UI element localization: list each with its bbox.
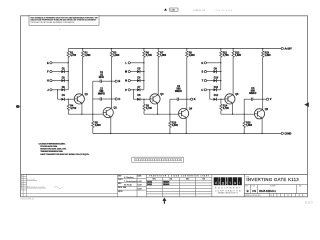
svg-text:+10V: +10V bbox=[286, 49, 292, 51]
svg-text:1,800: 1,800 bbox=[85, 54, 92, 57]
svg-text:U: U bbox=[201, 88, 203, 92]
svg-text:S: S bbox=[201, 70, 203, 74]
svg-text:CS: CS bbox=[252, 189, 256, 193]
wire diode D1 to bus bbox=[64, 71, 68, 73]
junction rail tap R8 bbox=[186, 48, 187, 49]
junction C2 bus junction bbox=[111, 98, 112, 99]
junction C3 bus junction bbox=[186, 99, 187, 100]
terminal N bbox=[128, 80, 130, 82]
junction Q5 emitter junction bbox=[232, 114, 233, 115]
wire R4 bottom lead bbox=[67, 111, 69, 115]
svg-text:F: F bbox=[21, 185, 22, 187]
wire series diode to base bbox=[64, 98, 74, 100]
conversion chart column headers bbox=[153, 178, 206, 181]
svg-text:23S-B-K113: 23S-B-K113 bbox=[216, 10, 233, 12]
wire output stub V bbox=[263, 98, 267, 100]
wire diode D11 to bus bbox=[216, 89, 220, 91]
terminal D bbox=[115, 98, 117, 100]
junction R5 tap bbox=[92, 114, 93, 115]
capacitor C4 bbox=[252, 98, 253, 101]
junction base node bbox=[220, 99, 221, 100]
junction C1 bus junction bbox=[111, 81, 112, 82]
wire series diode to base bbox=[140, 98, 150, 100]
junction bus row1 bbox=[68, 62, 69, 63]
wire input F lead bbox=[52, 71, 61, 73]
wire cap branch vertical bbox=[92, 81, 94, 114]
DEC logo block boundary bbox=[243, 174, 245, 196]
capacitor C3 bbox=[177, 98, 178, 101]
svg-text:1,800: 1,800 bbox=[160, 54, 167, 57]
svg-text:TRANSISTORS ARE DEC 3639: TRANSISTORS ARE DEC 3639 bbox=[40, 150, 63, 153]
wire diode D9 to bus bbox=[216, 71, 220, 73]
wire R14 top lead bbox=[220, 99, 222, 104]
terminal H bbox=[50, 80, 52, 82]
wire C4 left wire bbox=[244, 98, 251, 100]
title box size/code/number headers bbox=[245, 185, 303, 187]
module connector outline bbox=[132, 157, 184, 162]
wire input R to bus bbox=[207, 62, 221, 64]
junction Q6 emitter junction bbox=[261, 133, 262, 134]
diode D8 bbox=[137, 98, 140, 101]
svg-text:H: H bbox=[21, 187, 22, 189]
svg-text:1,800: 1,800 bbox=[189, 54, 196, 57]
junction Q4 emitter junction bbox=[186, 133, 187, 134]
transistor Q2 bbox=[103, 108, 113, 118]
svg-text:MODULE K113: MODULE K113 bbox=[27, 187, 44, 189]
svg-text:4-13-67: 4-13-67 bbox=[27, 179, 35, 181]
junction rail tap R2 bbox=[82, 48, 83, 49]
junction bus row2 bbox=[220, 71, 221, 72]
junction rail tap R11 bbox=[220, 48, 221, 49]
svg-text:P: P bbox=[125, 88, 127, 92]
svg-text:RESISTORS ARE 1/4W; 10%: RESISTORS ARE 1/4W; 10% bbox=[40, 148, 66, 151]
junction base node bbox=[143, 99, 144, 100]
wire input M lead bbox=[130, 71, 137, 73]
junction bus row1 bbox=[143, 62, 144, 63]
terminal C bbox=[281, 132, 283, 134]
signature block frame bbox=[118, 174, 147, 196]
svg-text:GATE TRANSISTORS ARE DEC 6534B: GATE TRANSISTORS ARE DEC 6534B, 10% OR E… bbox=[40, 153, 89, 156]
svg-text:MMFD: MMFD bbox=[175, 90, 182, 93]
diode D6 bbox=[137, 79, 140, 82]
wire drop to series diode bbox=[210, 90, 214, 99]
wire R5 bottom lead bbox=[92, 128, 94, 134]
capacitor C1 bbox=[100, 80, 101, 83]
wire R15 bottom lead bbox=[243, 128, 245, 134]
svg-text:CODE: CODE bbox=[251, 185, 255, 187]
faint pencil mark in empty strip area bbox=[54, 187, 62, 189]
wire series diode to base bbox=[216, 98, 225, 100]
wire R10 bottom lead bbox=[169, 128, 171, 134]
svg-text:MMFD: MMFD bbox=[249, 92, 256, 95]
svg-text:IN3609: IN3609 bbox=[163, 184, 169, 186]
wire C4 right wire bbox=[253, 98, 263, 100]
wire diode D2 to bus bbox=[64, 80, 68, 82]
wire diode D5 to bus bbox=[140, 71, 144, 73]
svg-text:INVERTING GATE K113: INVERTING GATE K113 bbox=[246, 177, 299, 182]
resistor R7 bbox=[157, 51, 159, 57]
terminal K bbox=[191, 98, 193, 100]
resistor R1 bbox=[67, 51, 69, 57]
wire Q1 emitter down bbox=[81, 103, 83, 114]
terminal P bbox=[128, 89, 130, 91]
svg-text:4,700: 4,700 bbox=[146, 54, 153, 57]
svg-text:DIODES ARE D664: DIODES ARE D664 bbox=[40, 145, 58, 148]
junction bus row2 bbox=[68, 71, 69, 72]
svg-text:9-6-67: 9-6-67 bbox=[138, 189, 143, 191]
wire C2 left wire bbox=[93, 98, 100, 100]
svg-text:B: B bbox=[247, 189, 249, 193]
junction bus row3 bbox=[143, 80, 144, 81]
svg-text:C O R P O R A T I O N: C O R P O R A T I O N bbox=[215, 189, 241, 192]
resistor R3 bbox=[110, 51, 112, 57]
svg-text:1,800: 1,800 bbox=[246, 124, 253, 127]
diode D1 bbox=[61, 70, 64, 73]
wire drop to series diode bbox=[58, 90, 62, 99]
wire ground rail bbox=[93, 132, 281, 134]
wire Q4 emitter down bbox=[185, 118, 187, 133]
diode D9 bbox=[214, 70, 217, 73]
junction bus row3 bbox=[220, 80, 221, 81]
svg-text:1,800: 1,800 bbox=[235, 54, 242, 57]
terminal E bbox=[50, 62, 52, 64]
title strip top rule bbox=[21, 173, 308, 175]
DEC logo letters bbox=[215, 181, 241, 185]
svg-text:N: N bbox=[125, 79, 127, 83]
wire Q5 collector up bbox=[232, 57, 234, 94]
diode D5 bbox=[137, 70, 140, 73]
wire diode D7 to bus bbox=[140, 89, 144, 91]
terminal R bbox=[204, 62, 206, 64]
eco history boxes bbox=[270, 193, 303, 196]
capacitor C4 value label bbox=[249, 89, 256, 95]
wire output bus bbox=[186, 57, 188, 109]
wire R10 top lead bbox=[169, 114, 171, 121]
svg-text:E Q U I P M E N T: E Q U I P M E N T bbox=[215, 188, 241, 190]
junction rail tap R3 bbox=[111, 48, 112, 49]
svg-text:B: B bbox=[118, 79, 120, 83]
wire Q2 emitter down bbox=[110, 117, 112, 133]
wire input L to bus bbox=[130, 62, 144, 64]
resistor R12 bbox=[232, 51, 234, 57]
svg-text:D10: D10 bbox=[214, 77, 219, 80]
wire output stub K bbox=[187, 98, 191, 100]
transistor Q5 bbox=[225, 94, 235, 104]
svg-text:E: E bbox=[21, 183, 22, 185]
wire C2 right wire bbox=[101, 98, 111, 100]
wire R13 top lead bbox=[262, 49, 264, 51]
terminal V bbox=[266, 98, 268, 100]
diode D10 bbox=[214, 79, 217, 82]
copyright notice box bbox=[29, 15, 99, 25]
wire R6 top lead bbox=[143, 49, 145, 51]
sheet border frame bbox=[21, 16, 308, 197]
svg-text:4,700: 4,700 bbox=[70, 107, 77, 110]
wire diode D3 to bus bbox=[64, 89, 68, 91]
junction Q1 emitter junction bbox=[81, 114, 82, 115]
svg-text:d: d bbox=[215, 181, 217, 185]
wire C1 left wire bbox=[93, 80, 100, 82]
svg-text:UNLESS OTHERWISE INDICATED:: UNLESS OTHERWISE INDICATED: bbox=[39, 142, 66, 145]
capacitor C2 bbox=[100, 97, 101, 100]
right margin arrow mark bbox=[304, 102, 309, 107]
wire R11 top lead bbox=[220, 49, 222, 51]
title box rule above print row bbox=[244, 192, 307, 194]
wire input U lead bbox=[207, 89, 214, 91]
wire input J lead bbox=[52, 89, 61, 91]
diode D4 bbox=[61, 98, 64, 101]
capacitor C3 value label bbox=[175, 87, 182, 93]
wire R14 bottom lead bbox=[220, 111, 222, 115]
resistor R9 bbox=[143, 104, 145, 110]
title box size/code/number verticals bbox=[251, 185, 297, 194]
title box rule under title bbox=[244, 184, 307, 186]
transistor Q3 bbox=[150, 94, 160, 104]
resistor R2 bbox=[81, 51, 83, 57]
junction gnd tap g3 pulldown bbox=[244, 133, 245, 134]
svg-text:TRANSISTOR & DIODE CONVERSION: TRANSISTOR & DIODE CONVERSION CHART bbox=[149, 175, 210, 178]
wire diode D6 to bus bbox=[140, 80, 144, 82]
resistor R11 bbox=[220, 51, 222, 57]
svg-text:1 DB: 1 DB bbox=[170, 10, 175, 12]
terminal F bbox=[50, 71, 52, 73]
wire Q6 emitter down bbox=[261, 118, 263, 133]
svg-text:IN3606: IN3606 bbox=[163, 181, 169, 183]
wire Q1 collector up bbox=[82, 57, 84, 94]
resistor R5 bbox=[92, 121, 94, 127]
bottom margin up-arrow mark bbox=[163, 199, 166, 204]
wire input P lead bbox=[130, 89, 137, 91]
svg-text:9-1-67: 9-1-67 bbox=[138, 181, 143, 183]
wire R7 top lead bbox=[157, 49, 159, 51]
DEC logo digital blocks bbox=[214, 177, 242, 185]
wire +10V top rail bbox=[68, 48, 281, 50]
svg-text:PRINTED CIRCUIT REV.: PRINTED CIRCUIT REV. bbox=[245, 195, 261, 197]
left index table row rules bbox=[21, 177, 118, 194]
wire C3 left wire bbox=[170, 98, 177, 100]
wire Q3 collector up bbox=[157, 57, 159, 94]
wire cap branch vertical bbox=[169, 99, 171, 114]
junction C4 bus junction bbox=[262, 99, 263, 100]
svg-text:D12: D12 bbox=[214, 94, 219, 97]
resistor R15 bbox=[243, 121, 245, 127]
wire input H lead bbox=[52, 80, 61, 82]
terminal M bbox=[128, 71, 130, 73]
diode D2 bbox=[61, 79, 64, 82]
wire R2 top lead bbox=[82, 49, 84, 51]
wire input S lead bbox=[207, 71, 214, 73]
wire R5 top lead bbox=[92, 114, 94, 121]
junction Q2 emitter junction bbox=[110, 133, 111, 134]
module connector pins bbox=[134, 159, 182, 161]
wire R8 top lead bbox=[186, 49, 188, 51]
wire interstage base wire bbox=[144, 113, 179, 115]
wire output stub D bbox=[111, 98, 115, 100]
transistor Q4 bbox=[179, 108, 189, 118]
top margin revision box bbox=[170, 8, 178, 11]
terminal J bbox=[50, 89, 52, 91]
wire drop to series diode bbox=[133, 90, 137, 99]
wire C1 right wire bbox=[101, 80, 111, 82]
wire input T lead bbox=[207, 80, 214, 82]
resistor R6 bbox=[143, 51, 145, 57]
svg-text:W. Hindle: W. Hindle bbox=[124, 185, 132, 187]
terminal T bbox=[204, 80, 206, 82]
junction base node bbox=[68, 99, 69, 100]
junction drop tap bbox=[209, 89, 210, 90]
svg-text:PROJ. ENG: PROJ. ENG bbox=[118, 187, 127, 189]
svg-text:MFD: MFD bbox=[99, 76, 104, 79]
wire output bus bbox=[110, 57, 112, 108]
terminal B bbox=[115, 80, 117, 82]
svg-text:1,800: 1,800 bbox=[172, 124, 179, 127]
terminal A bbox=[281, 48, 283, 50]
svg-text:H: H bbox=[47, 79, 49, 83]
resistor R13 bbox=[262, 51, 264, 57]
left index table verticals bbox=[23, 174, 27, 196]
conversion chart entries bbox=[147, 180, 169, 186]
signature block headers and entries bbox=[118, 174, 142, 193]
svg-text:T. Stockebrand: T. Stockebrand bbox=[124, 180, 137, 183]
svg-text:D11: D11 bbox=[214, 86, 219, 89]
resistor R10 bbox=[169, 121, 171, 127]
svg-text:1,800: 1,800 bbox=[95, 124, 102, 127]
svg-text:SIZE: SIZE bbox=[245, 185, 248, 187]
resistor R14 bbox=[220, 104, 222, 110]
svg-text:1,800: 1,800 bbox=[265, 54, 272, 57]
diode D12 bbox=[214, 98, 217, 101]
wire interstage base wire bbox=[68, 113, 103, 115]
junction bus row3 bbox=[68, 80, 69, 81]
wire interstage base wire bbox=[221, 113, 255, 115]
junction drop tap bbox=[57, 89, 58, 90]
svg-text:DRN: DRN bbox=[118, 175, 121, 177]
svg-text:t: t bbox=[230, 181, 231, 185]
svg-text:4,700: 4,700 bbox=[223, 107, 230, 110]
svg-text:V: V bbox=[270, 97, 272, 101]
capacitor C2 value label bbox=[98, 90, 105, 96]
wire C3 right wire bbox=[179, 98, 187, 100]
transistor Q1 bbox=[74, 94, 84, 104]
wire R12 top lead bbox=[232, 49, 234, 51]
wire R4 top lead bbox=[67, 99, 69, 104]
svg-text:4,700: 4,700 bbox=[70, 54, 77, 57]
terminal S bbox=[204, 71, 206, 73]
wire R3 top lead bbox=[110, 49, 112, 51]
junction drop tap bbox=[133, 89, 134, 90]
resistor R8 bbox=[186, 51, 188, 57]
junction rail tap R13 bbox=[262, 48, 263, 49]
wire R9 top lead bbox=[143, 99, 145, 104]
transistor Q6 bbox=[254, 109, 264, 119]
svg-text:NUMBER: NUMBER bbox=[270, 185, 276, 187]
junction rail tap R6 bbox=[143, 48, 144, 49]
junction Q3 emitter junction bbox=[157, 114, 158, 115]
svg-text:9-5-67: 9-5-67 bbox=[138, 185, 143, 187]
diode D11 bbox=[214, 88, 217, 91]
junction bus row2 bbox=[143, 71, 144, 72]
svg-text:g: g bbox=[222, 181, 224, 185]
terminal U bbox=[204, 89, 206, 91]
junction gnd tap g2 pulldown bbox=[169, 133, 170, 134]
capacitor C1 value label bbox=[99, 74, 104, 80]
junction bus row1 bbox=[220, 62, 221, 63]
wire R15 top lead bbox=[243, 114, 245, 121]
svg-text:K: K bbox=[194, 97, 196, 101]
junction rail tap R12 bbox=[232, 48, 233, 49]
svg-text:R: R bbox=[201, 61, 203, 65]
wire output bus bbox=[262, 57, 264, 109]
wire R1 top lead bbox=[67, 49, 69, 51]
wire cap branch vertical bbox=[243, 99, 245, 114]
wire diode bus bbox=[220, 57, 222, 90]
junction R10 tap bbox=[169, 114, 170, 115]
svg-text:B: B bbox=[21, 177, 22, 179]
svg-text:K113: K113 bbox=[305, 200, 313, 205]
wire diode D10 to bus bbox=[216, 80, 220, 82]
svg-text:1,800: 1,800 bbox=[113, 54, 120, 57]
wire Q5 emitter down bbox=[232, 103, 234, 114]
left index table tiny entries bbox=[21, 174, 44, 190]
svg-text:4,700: 4,700 bbox=[223, 54, 230, 57]
diode D7 bbox=[137, 88, 140, 91]
conversion chart frame bbox=[146, 174, 212, 196]
svg-text:DRB 110B DRB 102: DRB 110B DRB 102 bbox=[21, 199, 35, 201]
wire Q3 emitter down bbox=[157, 103, 159, 114]
svg-text:R. Mayhew: R. Mayhew bbox=[124, 177, 134, 179]
wire output stub B bbox=[111, 80, 115, 82]
resistor R4 bbox=[67, 104, 69, 110]
terminal L bbox=[128, 62, 130, 64]
left margin zone blob bbox=[16, 105, 20, 108]
svg-text:RS-B-K113-0-1: RS-B-K113-0-1 bbox=[259, 190, 276, 193]
svg-text:D: D bbox=[118, 97, 120, 101]
junction R15 tap bbox=[244, 114, 245, 115]
wire input N lead bbox=[130, 80, 137, 82]
top margin revision triangle mark bbox=[164, 8, 167, 10]
diode D3 bbox=[61, 88, 64, 91]
wire diode bus bbox=[143, 57, 145, 90]
wire diode bus bbox=[67, 57, 69, 90]
svg-text:4,700: 4,700 bbox=[146, 107, 153, 110]
svg-text:GND: GND bbox=[286, 133, 291, 135]
svg-text:MMFD: MMFD bbox=[98, 93, 105, 96]
svg-text:D662: D662 bbox=[147, 184, 152, 186]
junction rail tap R7 bbox=[158, 48, 159, 49]
svg-text:M: M bbox=[125, 70, 127, 74]
wire input E to bus bbox=[52, 62, 68, 64]
wire R9 bottom lead bbox=[143, 111, 145, 115]
svg-text:E: E bbox=[47, 61, 49, 65]
